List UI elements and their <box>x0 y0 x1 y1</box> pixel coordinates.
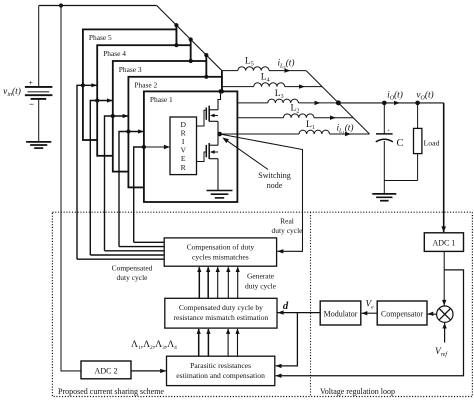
summing junction <box>437 306 453 322</box>
wire modulator output d <box>278 312 321 314</box>
inductor L1 <box>299 130 330 134</box>
node duty wire phase 3 <box>111 114 115 118</box>
wire Vin sense down to ADC 2 <box>61 6 81 371</box>
driver box U1 DRIVER <box>170 117 197 175</box>
wire L4 to summing diagonal <box>285 86 322 88</box>
wire ADC1 branch to parasitic estimation <box>276 270 464 376</box>
wire real duty cycle from switching node <box>220 134 303 251</box>
node Vin entry on Phase 1 top edge <box>218 89 222 93</box>
box parasitic resistances estimation and compensation <box>167 356 275 385</box>
node duty wire phase 4 <box>95 98 99 102</box>
wire compensated duty cycle phase 2 <box>119 132 143 247</box>
arrow output current <box>394 101 400 105</box>
wire d branch to parasitic estimation <box>276 313 298 366</box>
node top edge Phase 4 <box>174 43 178 47</box>
svg-text:−: − <box>29 99 34 109</box>
phase box Phase 2 <box>128 77 222 188</box>
svg-text:+: + <box>387 129 390 134</box>
node Vin diagonal Phase 4 <box>189 37 193 41</box>
wire output rail <box>338 102 443 104</box>
svg-text:Phase 3: Phase 3 <box>119 65 142 74</box>
capacitor C <box>383 103 385 134</box>
node switching node <box>217 132 222 137</box>
wire output summing diagonal <box>306 71 369 134</box>
wire summing junction to compensator <box>428 313 437 315</box>
wire phase 5 output line <box>222 70 238 72</box>
wire phase 1 output line <box>220 133 299 135</box>
svg-text:Voltage regulation loop: Voltage regulation loop <box>320 387 395 396</box>
wire compensated duty cycle phase 4 <box>90 101 112 256</box>
wire duty staircase into compensation box phase 1 <box>134 241 165 243</box>
svg-text:vO(t): vO(t) <box>416 90 433 102</box>
dashed divider voltage regulation loop <box>310 212 312 396</box>
wire L5 to summing diagonal <box>269 70 306 72</box>
inductor L3 <box>268 99 299 103</box>
svg-text:duty cycle: duty cycle <box>245 282 277 291</box>
box compensated duty cycle by resistance mismatch estimation <box>165 298 277 328</box>
wire Vin diagonal bus <box>157 6 222 71</box>
ground inside Phase 1 <box>207 190 233 192</box>
inductor L5 <box>238 67 269 71</box>
svg-text:Compensation of duty: Compensation of duty <box>187 243 255 252</box>
box ADC 1 <box>424 233 463 252</box>
svg-text:duty cycle: duty cycle <box>271 226 303 235</box>
wire generate duty cycle 2 <box>207 267 209 298</box>
battery Vin <box>38 6 40 87</box>
wire lambda estimate 3 <box>227 329 229 356</box>
node Vin diagonal Phase 3 <box>204 53 208 57</box>
node load branch <box>415 101 420 106</box>
svg-text:Parasitic resistances: Parasitic resistances <box>190 361 251 370</box>
svg-text:Phase 4: Phase 4 <box>103 49 126 58</box>
wire duty staircase into compensation box phase 5 <box>77 258 164 260</box>
node Vin diagonal Phase 5 <box>174 23 178 27</box>
wire lambda estimate 2 <box>207 329 209 356</box>
phase box Phase 3 <box>113 61 207 172</box>
node top edge Phase 1 <box>220 89 224 93</box>
wire vo to ADC1 <box>443 103 445 232</box>
wire phase 3 output line <box>237 102 267 104</box>
node duty wire phase 2 <box>126 129 130 133</box>
wire phase 4 output line <box>222 86 254 88</box>
node on Vin bus to ADC2 sense <box>59 3 63 7</box>
ground output <box>372 193 396 195</box>
svg-text:Phase 5: Phase 5 <box>89 33 112 42</box>
box compensation of duty cycles mismatches <box>164 238 276 266</box>
phase box Phase 5 <box>83 29 176 140</box>
wire duty staircase into compensation box phase 4 <box>90 254 164 256</box>
arrow to switching node <box>224 138 268 169</box>
wire gate lower mosfet <box>197 152 207 162</box>
wire compensated duty cycle phase 1 <box>134 147 145 242</box>
svg-text:Compensated duty cycle by: Compensated duty cycle by <box>179 303 263 312</box>
svg-text:Proposed current sharing schem: Proposed current sharing scheme <box>58 387 164 396</box>
wire generate duty cycle 5 <box>237 267 239 298</box>
wire switching node to Q2 drain <box>217 134 219 145</box>
node duty wire phase 5 <box>81 83 85 87</box>
wire compensated duty cycle phase 3 <box>105 116 128 251</box>
load resistor <box>417 103 419 128</box>
wire L1 to summing diagonal <box>330 133 370 135</box>
ground for battery <box>26 141 51 143</box>
svg-text:resistance mismatch estimation: resistance mismatch estimation <box>173 313 268 322</box>
wire generate duty cycle 1 <box>198 267 200 298</box>
box ADC 2 <box>81 361 131 379</box>
wire Vin drop into Phase 3 <box>205 55 207 61</box>
box modulator <box>320 301 361 325</box>
node output junction <box>336 100 341 105</box>
svg-text:Switching: Switching <box>258 171 290 180</box>
svg-text:Modulator: Modulator <box>324 309 358 318</box>
wire Vin drop into Phase 5 <box>175 25 177 29</box>
wire duty staircase into compensation box phase 3 <box>105 250 165 252</box>
wire top Vin bus <box>39 5 157 7</box>
svg-text:Compensated: Compensated <box>112 264 153 273</box>
svg-text:Real: Real <box>280 217 294 226</box>
wire cap load common <box>384 180 417 182</box>
wire L3 to summing diagonal <box>298 102 338 104</box>
dashed border proposed current sharing scheme <box>52 212 472 396</box>
transistor Q1 high-side MOSFET <box>205 108 207 120</box>
wire lambda estimate 4 <box>237 329 239 356</box>
wire ADC2 to parasitic box <box>131 370 166 372</box>
wire compensated duty cycle phase 5 <box>77 85 97 259</box>
wire drain of Q1 to Vin node on top edge <box>218 91 221 109</box>
wire Vref into summing junction <box>444 323 446 342</box>
wire duty staircase into compensation box phase 2 <box>119 246 164 248</box>
wire compensator to modulator Ve <box>362 312 378 314</box>
wire generate duty cycle 3 <box>217 267 219 298</box>
wire Vin drop into Phase 4 <box>190 40 192 46</box>
wire Q2 source to ground <box>217 159 219 191</box>
svg-text:Λ1,Λ2,Λ3,Λ4: Λ1,Λ2,Λ3,Λ4 <box>131 339 177 351</box>
wire lambda estimate 1 <box>198 329 200 356</box>
wire generate duty cycle 4 <box>227 267 229 298</box>
node top edge Phase 3 <box>189 59 193 63</box>
inductor L4 <box>254 83 285 87</box>
transistor Q2 low-side MOSFET <box>205 145 207 157</box>
svg-text:estimation and compensation: estimation and compensation <box>176 371 265 380</box>
svg-text:d: d <box>283 301 289 312</box>
node top edge Phase 2 <box>204 75 208 79</box>
box compensator <box>377 301 427 325</box>
wire Q1 source to switching node <box>217 121 219 134</box>
wire to output ground <box>383 181 385 194</box>
svg-text:vin(t): vin(t) <box>3 86 21 98</box>
wire phase 2 output line <box>237 117 283 119</box>
wire duty input arrow into driver <box>145 146 169 148</box>
node duty wire phase 1 <box>142 145 146 149</box>
svg-text:Generate: Generate <box>247 272 275 281</box>
wire ADC1 output to summing junction <box>443 251 445 305</box>
svg-text:ADC 2: ADC 2 <box>95 367 118 376</box>
wire Vin drop into Phase 2 <box>221 71 223 77</box>
svg-text:ADC 1: ADC 1 <box>432 239 455 248</box>
svg-text:duty cycle: duty cycle <box>116 273 148 282</box>
wire L2 to summing diagonal <box>314 117 353 119</box>
svg-text:cycles mismatches: cycles mismatches <box>192 253 249 262</box>
node capacitor branch <box>382 101 387 106</box>
svg-text:+: + <box>29 79 33 87</box>
svg-text:Phase 2: Phase 2 <box>134 81 157 90</box>
svg-text:iL5(t): iL5(t) <box>277 58 294 70</box>
svg-text:Compensator: Compensator <box>381 309 423 318</box>
svg-text:Load: Load <box>424 138 440 147</box>
phase box Phase 1 <box>144 91 238 202</box>
svg-text:iO(t): iO(t) <box>387 90 403 102</box>
phase box Phase 4 <box>97 45 191 156</box>
svg-text:iL1(t): iL1(t) <box>336 123 353 135</box>
svg-text:node: node <box>267 181 283 190</box>
inductor L2 <box>284 114 315 118</box>
svg-text:Phase 1: Phase 1 <box>150 95 173 104</box>
wire gate upper mosfet <box>197 110 207 126</box>
svg-text:C: C <box>396 138 403 149</box>
